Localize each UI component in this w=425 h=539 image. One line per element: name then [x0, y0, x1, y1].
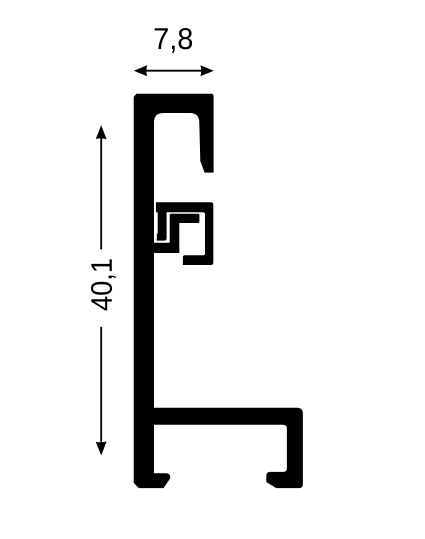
dimension label 40,1 (rotated)	[91, 259, 116, 310]
top arrowhead of height dimension	[96, 125, 107, 139]
left arrowhead of width dimension	[134, 65, 147, 76]
aluminium profile main body (left wall, top channel, inner hook bracket, bottom channel with feet)	[134, 94, 303, 488]
vertical dimension line upper segment (height 40,1)	[100, 138, 102, 249]
dimension label 7,8	[155, 28, 192, 53]
right arrowhead of width dimension	[200, 65, 213, 76]
horizontal dimension line (width 7,8)	[146, 70, 202, 72]
vertical dimension line lower segment	[100, 327, 102, 443]
clip-on hanging rail piece (C-channel hooked over the bracket)	[156, 202, 213, 265]
bottom arrowhead of height dimension	[96, 441, 107, 455]
